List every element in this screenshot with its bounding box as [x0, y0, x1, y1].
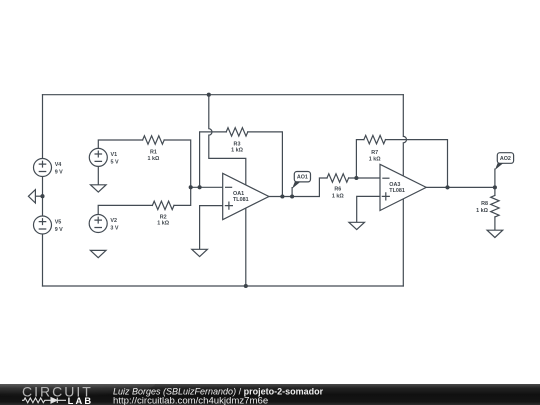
wire: R7 left to inverting node [356, 140, 364, 178]
wire: OA3 V- drop [402, 199, 404, 286]
svg-text:R3: R3 [234, 141, 241, 147]
svg-text:R7: R7 [371, 150, 378, 156]
component labels [55, 141, 511, 233]
svg-text:1 kΩ: 1 kΩ [147, 156, 159, 162]
svg-text:OA1: OA1 [233, 191, 244, 197]
junction: AO1 tail on OA1 output [290, 194, 294, 198]
junction: AO2 / R8 node [493, 185, 497, 189]
ground below V1 [91, 185, 107, 192]
ground below OA3 + input [349, 222, 365, 229]
wire: OA1 non-inverting input to ground [200, 206, 223, 250]
wire: OA1 V+ drop with hop over R3 wire [209, 95, 246, 186]
CircuitLab logo [22, 383, 93, 405]
resistor R2 [152, 201, 174, 209]
svg-text:1 kΩ: 1 kΩ [231, 148, 243, 154]
resistor R8 [491, 195, 499, 217]
wire: AO2 node to R8 [494, 187, 496, 195]
ground below OA1 + input [192, 249, 208, 256]
voltage source V4 [34, 159, 52, 177]
junction: supply midpoint ground [40, 194, 44, 198]
wire: V1 bottom to ground [97, 166, 99, 184]
ground (left arrow) on supply midpoint [28, 190, 42, 203]
wire: R8 bottom to ground [494, 217, 496, 230]
svg-text:V2: V2 [110, 218, 117, 224]
wire: bottom bus [43, 285, 404, 287]
voltage source V2 [89, 215, 107, 233]
wire: OA1 output to R6 [269, 178, 327, 197]
wire: R3 left to inverting node [200, 132, 227, 187]
svg-text:LAB: LAB [68, 396, 94, 405]
wire: OA3 non-inverting input to ground [357, 196, 380, 222]
svg-text:9 V: 9 V [55, 227, 63, 233]
node AO1 flag [292, 172, 310, 189]
svg-text:1 kΩ: 1 kΩ [332, 194, 344, 200]
wire: AO1 flag tail stub [291, 188, 293, 197]
svg-text:AO1: AO1 [297, 175, 308, 181]
wire: V2 top to R2 [98, 205, 152, 214]
resistor R7 [364, 135, 386, 143]
wire: R2 right to summing node [174, 187, 191, 205]
wire: top power bus [43, 94, 404, 96]
ground below V2 [90, 250, 106, 257]
voltage source V1 [89, 148, 107, 166]
svg-text:R1: R1 [150, 150, 157, 156]
svg-text:R2: R2 [160, 214, 167, 220]
ground below R8 [487, 230, 503, 237]
svg-text:3 V: 3 V [110, 226, 118, 232]
svg-text:TL081: TL081 [389, 188, 405, 194]
wire: V4 bottom to V5 top [42, 177, 44, 217]
svg-text:V1: V1 [111, 152, 118, 158]
svg-text:V5: V5 [55, 220, 62, 226]
svg-text:9 V: 9 V [55, 170, 63, 176]
svg-text:1 kΩ: 1 kΩ [476, 208, 488, 214]
junction: R3 drop on OA1 output [280, 194, 284, 198]
wire: V4 top to top bus corner [42, 95, 44, 159]
junction: top bus / OA1 V+ [207, 93, 211, 97]
svg-text:R8: R8 [481, 201, 488, 207]
junction: R3 tap on inverting wire [198, 185, 202, 189]
svg-text:R6: R6 [334, 187, 341, 193]
junction: bottom bus / OA1 V- [244, 284, 248, 288]
wire: R6 right to OA3 inverting input [349, 177, 380, 179]
wire: R3 right to OA1 output [248, 132, 283, 197]
wire: OA3 V+ drop with hop over R7 wire [403, 95, 406, 177]
wire: AO2 flag tail stub [494, 169, 496, 187]
op-amp OA1 [223, 173, 269, 219]
wire: OA1 V- drop [245, 208, 247, 286]
svg-text:http://circuitlab.com/ch4ukjdm: http://circuitlab.com/ch4ukjdmz7m6e [113, 396, 268, 405]
wire: R7 right to OA3 output [386, 140, 448, 188]
wire: OA3 output to AO2 node [426, 186, 495, 188]
wire: summing node to OA1 inverting input [191, 186, 223, 188]
voltage source V5 [34, 216, 52, 234]
junction: summing node R1/R2 [189, 185, 193, 189]
footer text [113, 387, 324, 405]
resistor R1 [143, 136, 165, 144]
svg-text:OA3: OA3 [389, 182, 400, 188]
wire: V1 top to R1 [98, 140, 142, 148]
svg-text:TL081: TL081 [233, 197, 249, 203]
svg-text:5 V: 5 V [111, 160, 119, 166]
resistor R3 [226, 128, 248, 136]
op-amp OA3 [380, 164, 426, 210]
svg-text:AO2: AO2 [500, 156, 511, 162]
wire: R1 right to summing node [164, 140, 191, 187]
wire: V5 bottom to bottom bus [42, 234, 44, 286]
resistor R6 [327, 174, 349, 182]
junction: R7 drop on OA3 output [445, 185, 449, 189]
svg-text:1 kΩ: 1 kΩ [369, 157, 381, 163]
svg-text:1 kΩ: 1 kΩ [157, 221, 169, 227]
junction: R7 tap on OA3 inverting wire [354, 176, 358, 180]
svg-text:V4: V4 [55, 162, 62, 168]
node AO2 flag [495, 153, 514, 170]
